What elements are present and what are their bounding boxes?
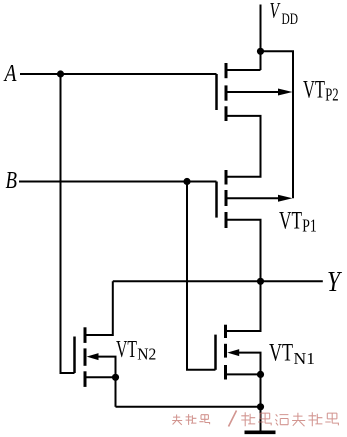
arrow VT_P1 substrate (points right to VDD rail): [278, 195, 293, 202]
wire VDD branch to substrate rail: [261, 51, 294, 198]
wire VT_N2 substrate lead: [97, 357, 116, 378]
ground symbol: [245, 430, 276, 434]
transistor VT_N1 channel dashes: [224, 325, 227, 338]
wire A vertical down to VT_N2 gate: [61, 74, 75, 373]
wire VT_N1 source down to ground: [260, 374, 262, 431]
junction node on Y line: [257, 278, 264, 285]
svg-text:VT: VT: [269, 339, 293, 366]
wire VT_N1 source lead: [226, 373, 261, 375]
svg-text:B: B: [6, 168, 18, 194]
wire VT_P2 drain to VT_P1 source: [226, 116, 261, 177]
svg-text:N2: N2: [137, 344, 156, 363]
wire VT_N2 source down to ground rail: [115, 377, 117, 407]
wire input A horizontal: [20, 73, 217, 75]
transistor VT_N2 gate bar: [73, 337, 76, 374]
junction node VT_N1 source: [257, 371, 264, 378]
svg-text:P2: P2: [325, 85, 338, 105]
arrow VT_N2 substrate (points left into channel): [87, 353, 99, 360]
svg-text:VT: VT: [279, 207, 302, 234]
transistor VT_P2 gate bar: [215, 74, 218, 110]
wire ground rail: [116, 406, 261, 408]
wire VT_P1 substrate lead: [226, 197, 283, 199]
junction node on A wire: [57, 70, 64, 77]
wire VT_P1 drain down to VT_N1 drain: [226, 220, 261, 331]
transistor VT_P1 channel dashes: [225, 170, 228, 185]
watermark 头条号 / 全球电气资源: [172, 411, 338, 427]
svg-text:P1: P1: [302, 216, 317, 236]
svg-text:VT: VT: [303, 77, 325, 104]
wire Y down to VT_N2 drain: [85, 281, 113, 335]
wire output Y horizontal: [113, 280, 323, 282]
transistor VT_P2 channel dashes: [225, 63, 228, 78]
junction node on VDD: [257, 48, 264, 55]
junction node VT_N2 source: [112, 374, 119, 381]
svg-text:A: A: [3, 61, 17, 87]
svg-text:N1: N1: [294, 349, 316, 368]
wire B vertical down to VT_N1 gate: [187, 182, 216, 370]
wire VT_P2 substrate lead: [226, 91, 283, 93]
wire VT_P2 source lead: [226, 69, 261, 71]
wire VDD vertical: [260, 5, 262, 71]
svg-text:DD: DD: [282, 11, 299, 28]
wire VT_N2 source lead: [85, 376, 116, 378]
arrow VT_N1 substrate (points left into channel): [227, 349, 239, 356]
junction node on B wire: [183, 178, 190, 185]
transistor VT_P1 gate bar: [215, 182, 218, 218]
junction node ground rail: [257, 403, 264, 410]
arrow VT_P2 substrate (points right to VDD rail): [278, 89, 293, 96]
wire VT_N1 substrate lead: [236, 353, 261, 375]
transistor VT_N1 gate bar: [214, 335, 217, 370]
transistor VT_N2 channel dashes: [84, 327, 87, 343]
wire input B horizontal: [19, 181, 217, 183]
svg-text:VT: VT: [116, 336, 137, 363]
